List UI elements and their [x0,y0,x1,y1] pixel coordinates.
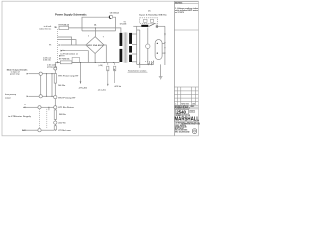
svg-text:HT1 Rtn Lower: HT1 Rtn Lower [58,129,71,132]
svg-text:power amp: power amp [10,73,20,75]
svg-text:Power Supply Schematic: Power Supply Schematic [55,13,87,16]
svg-text:output: output [5,96,11,99]
svg-text:±: ± [25,104,26,106]
svg-text:BR1 35A 400V: BR1 35A 400V [87,44,104,47]
svg-text:lo 50 mA: lo 50 mA [43,59,51,62]
svg-text:on 17/12/79: on 17/12/79 [175,12,184,14]
svg-text:HT FUSE 2A: HT FUSE 2A [59,57,70,60]
svg-text:AC/2 htr: AC/2 htr [115,85,122,88]
svg-text:(?): (?) [148,11,151,13]
svg-text:571-038: 571-038 [120,24,127,26]
svg-text:BLETCHLEY: BLETCHLEY [175,128,184,130]
svg-text:+6v ( +6v ): +6v ( +6v ) [98,89,107,91]
svg-text:2540: 2540 [176,110,186,115]
svg-text:Bx: Bx [22,130,24,132]
svg-text:HT1 Rtn Return: HT1 Rtn Return [58,106,74,109]
svg-text:CB 100mA: CB 100mA [110,12,120,15]
svg-text:from preamp: from preamp [5,94,17,96]
svg-text:HT2 Preamp HT: HT2 Preamp HT [58,97,76,99]
svg-text:MILTON KEYNES: MILTON KEYNES [175,130,187,132]
svg-text:to f.s.: to f.s. [60,49,65,52]
svg-text:to LT/Heater Supply: to LT/Heater Supply [8,115,31,118]
svg-text:5k6 22w: 5k6 22w [58,85,65,87]
svg-text:NOTES:: NOTES: [175,2,183,4]
svg-text:Input & Standby S/B Sw: Input & Standby S/B Sw [139,14,167,17]
svg-text:preamp valve: preamp valve [47,66,57,68]
svg-text:Transformer section: Transformer section [128,69,146,72]
svg-text:F1: F1 [49,45,51,47]
svg-text:+HT (+8V): +HT (+8V) [79,87,88,89]
svg-text:Main Output Details: Main Output Details [7,68,29,71]
svg-text:±15V Htr: ±15V Htr [58,121,66,124]
svg-text:560 22w: 560 22w [59,114,66,116]
svg-text:mains tfmr sec: mains tfmr sec [39,28,51,31]
svg-text:HT FUSE 2A: HT FUSE 2A [59,24,70,27]
svg-text:HT1 Power amp HT: HT1 Power amp HT [58,75,79,77]
svg-text:to Federation st: to Federation st [60,52,78,55]
svg-text:ISS 2: ISS 2 [190,111,194,113]
